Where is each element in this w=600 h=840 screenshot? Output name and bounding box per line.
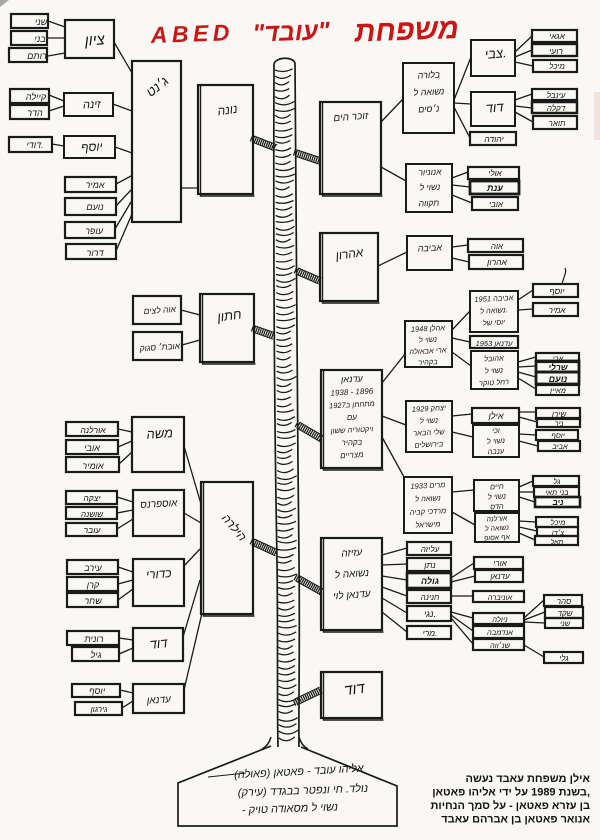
box vicki [473, 425, 519, 457]
box david-bot [321, 672, 384, 720]
box c-nir [537, 418, 580, 427]
wire shnava-gali [524, 645, 544, 657]
wire ehuba-ari [518, 357, 536, 362]
box girgon [75, 702, 122, 715]
svg-text:דקלה: דקלה [547, 104, 566, 113]
wire ilan-nir [519, 417, 537, 422]
svg-text:תקווה: תקווה [418, 198, 439, 209]
svg-text:מרי.: מרי. [423, 628, 438, 638]
svg-text:נ׳סים: נ׳סים [418, 103, 440, 114]
wire anon-anat [452, 185, 470, 187]
box m-aliza [407, 542, 451, 555]
svg-text:יוסף: יוסף [89, 686, 106, 696]
wire kaduri-hillela [184, 549, 200, 566]
svg-text:אנואר פאטאן בן אברהם עאבד: אנואר פאטאן בן אברהם עאבד [441, 814, 590, 826]
svg-text:נשוי ל: נשוי ל [485, 366, 504, 376]
box c-noam2 [536, 372, 579, 384]
box avi1 [66, 440, 118, 454]
wire orlana-moshe [118, 429, 132, 432]
svg-text:עם: עם [347, 413, 358, 423]
svg-text:נשואה ל: נשואה ל [413, 86, 445, 98]
svg-text:מיכל: מיכל [551, 518, 566, 527]
svg-text:עזיזה: עזיזה [341, 547, 363, 559]
wire chaim-gal [519, 481, 533, 487]
wire aharon-aviva [378, 252, 407, 266]
svg-text:יוסף: יוסף [549, 286, 565, 296]
wire miriam-chaim [452, 490, 474, 492]
wire gola-ori [451, 563, 474, 578]
svg-text:בירושלים: בירושלים [414, 439, 443, 449]
svg-text:שנ׳ווה: שנ׳ווה [490, 641, 510, 650]
wire adnanbig-1948 [382, 354, 405, 383]
wire nina-ganet [113, 104, 132, 111]
wire aziza-meri [382, 612, 407, 632]
wire beni-tsion [47, 37, 65, 39]
svg-text:ABED: ABED [149, 19, 234, 48]
box yehuda [470, 132, 516, 145]
svg-text:מאיין: מאיין [549, 386, 566, 395]
wire aziza-negi [382, 598, 407, 613]
wire chaim-niv [519, 497, 535, 502]
svg-text:אוניברה: אוניברה [488, 593, 513, 602]
wire itzhak-vicki [452, 432, 473, 437]
svg-text:רונית: רונית [83, 634, 103, 644]
svg-text:אהרון: אהרון [486, 257, 507, 267]
svg-text:אף אסופ: אף אסופ [484, 534, 511, 542]
wire ilan-shiran [519, 411, 536, 413]
wire ganet-nona [181, 187, 198, 189]
svg-text:נשואה ל: נשואה ל [334, 567, 369, 581]
svg-text:אהלן 1948: אהלן 1948 [411, 323, 446, 334]
wire niola-shani [524, 622, 545, 623]
svg-text:אילן משפחת עאבד נעשה: אילן משפחת עאבד נעשה [466, 772, 591, 785]
svg-text:עופר: עופר [85, 226, 104, 236]
wire orlana-tsado [519, 527, 537, 531]
wire avi-moshe [118, 441, 132, 447]
svg-text:אביבה: אביבה [417, 242, 442, 253]
svg-text:נשואה ל: נשואה ל [415, 493, 441, 503]
wire keren-kaduri [118, 580, 133, 584]
box chatun [200, 294, 256, 364]
branch hillela-trunk [250, 538, 278, 556]
wire yosef-ganet [115, 147, 132, 153]
svg-text:בקהיר: בקהיר [341, 437, 362, 447]
svg-text:אנוניור: אנוניור [418, 167, 442, 178]
svg-text:נשואה ל: נשואה ל [485, 524, 510, 533]
wire b1948-adnan53 [452, 338, 470, 342]
svg-text:תאל: תאל [551, 538, 564, 546]
svg-text:עדנאן: עדנאן [145, 694, 171, 707]
box miriam [404, 477, 452, 533]
wire tsvi-c1 [515, 36, 532, 52]
svg-text:אגאי: אגאי [549, 32, 565, 41]
box irav [67, 560, 118, 574]
branch trunk-aharon [294, 267, 321, 284]
box m-meri [407, 626, 451, 639]
wire shani-tsion [48, 21, 65, 27]
svg-text:דודי.: דודי. [26, 140, 43, 150]
box aviva51 [470, 291, 518, 332]
branch trunk-zocher [294, 149, 322, 164]
svg-text:יצחק 1929: יצחק 1929 [412, 403, 447, 414]
box noam1 [65, 198, 116, 215]
box c-tsado [537, 527, 578, 536]
box hadar [10, 105, 49, 119]
svg-text:נועם: נועם [549, 374, 568, 384]
svg-text:בשנת 1989 על ידי אליהו פאטאן,: בשנת 1989 על ידי אליהו פאטאן, [432, 786, 590, 799]
box aziza [321, 538, 384, 632]
box itzhak [406, 401, 452, 452]
branch trunk-adnan [295, 421, 324, 441]
svg-text:ניולה: ניולה [492, 615, 507, 624]
svg-text:עליזה: עליזה [421, 545, 440, 554]
wire chaim-bnitai [519, 491, 534, 493]
box c-agai [532, 30, 577, 42]
box anon [406, 164, 452, 212]
box esperans [133, 490, 184, 536]
box ehuba [471, 351, 518, 389]
svg-text:סהר: סהר [557, 597, 572, 606]
wire zocher-blora [381, 99, 403, 122]
box r-andamba [473, 626, 524, 638]
wire rotem-tsion [48, 53, 65, 56]
box beni [11, 31, 47, 45]
box orlana2 [475, 513, 519, 542]
wire zocher-anon [381, 167, 406, 181]
box r-adnan [475, 570, 523, 582]
box b1948 [405, 321, 452, 367]
box r-onibra [473, 591, 524, 602]
svg-text:גירגון: גירגון [90, 705, 108, 714]
box c-ava [468, 239, 523, 252]
wire tsvi-c3 [515, 62, 533, 66]
svg-text:דוד: דוד [485, 99, 505, 116]
svg-text:"עובד": "עובד" [252, 17, 331, 48]
box c-yosef4 [536, 430, 578, 440]
box shachar [67, 593, 118, 607]
wire moshe-hillela [184, 446, 201, 504]
wire davidr-c4 [515, 94, 532, 100]
box c-tomer [533, 116, 577, 129]
trunk base flare [262, 737, 308, 749]
svg-text:בקהיר: בקהיר [418, 357, 438, 367]
svg-text:עדנאן: עדנאן [340, 373, 364, 384]
typed credits [431, 772, 591, 826]
box david-r [471, 92, 515, 126]
box c-michal2 [536, 517, 578, 527]
box m-hanina [407, 590, 451, 603]
box dudi [9, 137, 52, 152]
wire blora-davidr [454, 103, 471, 104]
svg-text:הדר: הדר [27, 108, 43, 118]
box c-sharli [536, 361, 579, 372]
branch nona-trunk [250, 135, 277, 151]
box shoshana [66, 507, 117, 519]
branch trunk-aziza [294, 574, 324, 594]
svg-text:נשוי ל: נשוי ל [488, 492, 507, 502]
svg-text:יוסף: יוסף [551, 431, 564, 440]
box ava-lezim [133, 296, 181, 324]
wire yosef2-adnanl [120, 690, 133, 693]
box adnan-l [133, 684, 184, 713]
wire negi-shnava [451, 618, 473, 644]
svg-text:נונה: נונה [217, 102, 239, 119]
svg-text:גיל: גיל [91, 650, 102, 660]
wire aziza-natan [382, 564, 407, 565]
pedestal base [178, 746, 397, 826]
box c-anat [470, 181, 519, 194]
box c-tal [535, 536, 578, 545]
box zocher [320, 102, 383, 196]
box amir1 [65, 177, 116, 192]
svg-text:מרדכי קביה: מרדכי קביה [409, 506, 446, 517]
corner mark [0, 0, 9, 7]
box c-oli [468, 167, 519, 179]
svg-text:שלי הבאר: שלי הבאר [413, 427, 445, 438]
box over [66, 523, 117, 536]
box keren [67, 577, 118, 591]
box c-inbal [532, 89, 577, 100]
svg-text:אמיר: אמיר [549, 306, 567, 315]
svg-text:דוד: דוד [343, 680, 366, 700]
wire shoshana-esper [117, 510, 133, 513]
wire irav-kaduri [118, 567, 133, 572]
svg-text:נועם: נועם [86, 202, 104, 212]
wire girgon-adnanl [122, 701, 133, 708]
wire b1948-aviva51 [452, 311, 470, 330]
box c-main [536, 385, 579, 395]
box chaim [474, 480, 519, 511]
box hillela [201, 482, 255, 616]
svg-text:יוסף: יוסף [81, 139, 103, 154]
box ganet [132, 61, 181, 222]
svg-text:הדס: הדס [490, 502, 504, 512]
svg-text:זינה: זינה [83, 99, 102, 112]
wire tsion-ganet [114, 42, 132, 73]
wire avatsgok-chatun [182, 340, 200, 345]
svg-text:נשוי ל: נשוי ל [420, 416, 439, 426]
box yosef1 [64, 136, 115, 158]
box m-natan [407, 558, 451, 571]
svg-text:קרן: קרן [86, 580, 100, 590]
box nona [198, 85, 255, 196]
svg-text:אובי: אובי [84, 443, 100, 453]
box c-bnitai [534, 487, 579, 497]
svg-text:נשוי ל: נשוי ל [419, 182, 440, 193]
svg-text:משפחת: משפחת [353, 13, 459, 49]
svg-text:אובי: אובי [489, 200, 504, 209]
box adnan-big [321, 370, 384, 470]
box ronit [67, 631, 119, 645]
svg-text:ציון: ציון [83, 31, 106, 49]
box c-niv [535, 497, 580, 507]
wire omir-moshe [119, 452, 132, 464]
box keila [10, 89, 49, 103]
svg-text:נשוי ל: נשוי ל [487, 436, 506, 446]
box f-sahar [544, 595, 582, 606]
wire aviva51-yosef [518, 290, 533, 300]
svg-text:יצקה: יצקה [83, 493, 101, 503]
wire aviva-ava [452, 245, 468, 247]
box c-shiran [536, 408, 580, 419]
svg-text:ענבה: ענבה [487, 446, 505, 456]
box c-aharon [469, 255, 523, 269]
box c-michal1 [533, 60, 577, 72]
svg-text:משה: משה [146, 425, 174, 442]
svg-text:עובר: עובר [84, 525, 102, 535]
svg-text:אומיר: אומיר [82, 461, 104, 471]
box tsion [65, 20, 114, 58]
wire blora-tsvi [454, 57, 471, 100]
svg-text:חיים: חיים [490, 482, 504, 492]
wire davidr-c5 [515, 106, 532, 108]
wire itzka-esper [117, 497, 133, 502]
svg-text:יוסי של: יוסי של [483, 317, 506, 327]
flourish lamed [562, 268, 566, 284]
box orlana1 [66, 422, 118, 436]
svg-text:אוספרנס: אוספרנס [140, 498, 178, 511]
wire dudi-yosef [52, 144, 64, 146]
box r-ori [474, 557, 523, 569]
svg-text:צבי.: צבי. [484, 45, 507, 62]
wire avalezim-chatun [181, 310, 200, 315]
box david-l [133, 628, 183, 661]
svg-text:מרים 1933: מרים 1933 [410, 480, 445, 491]
svg-text:אולי: אולי [488, 169, 502, 178]
wire ehuba-main [518, 378, 536, 389]
box itzka [66, 491, 117, 504]
wire aziza-hanina [382, 587, 407, 596]
wire aviva-aharon [452, 258, 469, 262]
wire negi-andamba [451, 615, 473, 631]
box omir [66, 457, 119, 472]
wire negi-niola [451, 612, 473, 618]
wire over-esper [117, 519, 133, 529]
svg-text:אנדמבה: אנדמבה [487, 628, 513, 637]
box f-shaked [545, 607, 583, 618]
box c-aviv [538, 441, 580, 451]
wire amir-ganet [116, 176, 131, 184]
wire adnanl-hillela [184, 613, 202, 690]
svg-text:שני: שני [560, 619, 571, 628]
svg-text:ענת: ענת [486, 183, 503, 193]
wire ehuba-noam [518, 372, 536, 377]
box c-yosef3 [533, 284, 578, 297]
box m-gola [407, 573, 451, 588]
svg-text:עדנאן: עדנאן [489, 572, 510, 581]
box kaduri [133, 559, 184, 606]
wire vicki-aviv [519, 441, 538, 446]
svg-text:אהובל: אהובל [484, 353, 504, 363]
wire niola-shaked [524, 612, 545, 620]
svg-text:נגי.: נגי. [424, 609, 436, 619]
svg-text:ניר: ניר [555, 419, 564, 428]
wire miriam-orlana [452, 512, 475, 525]
svg-text:תואר: תואר [549, 119, 566, 128]
box c-gal [533, 476, 579, 486]
svg-text:עינבל: עינבל [547, 91, 566, 100]
box moshe [132, 417, 184, 472]
svg-text:ניב: ניב [552, 498, 564, 507]
svg-text:רועי: רועי [549, 46, 563, 56]
svg-text:אילן: אילן [487, 411, 503, 421]
svg-text:נתן: נתן [423, 560, 435, 570]
box blora [403, 63, 454, 133]
svg-text:כדורי: כדורי [145, 566, 172, 582]
wire adnanbig-itzhak [382, 416, 406, 425]
box shani [11, 14, 48, 28]
box c-amir2 [533, 303, 578, 316]
box f-shani [545, 618, 583, 628]
wire hanina-onibra [451, 595, 473, 597]
wire itzhak-ilan [452, 414, 472, 416]
box aharon-b [320, 233, 380, 303]
box r-shnava [473, 639, 524, 650]
svg-text:שני: שני [35, 17, 48, 27]
wire anon-oli [452, 172, 468, 178]
svg-text:עדנאן 1953: עדנאן 1953 [476, 339, 514, 348]
wire keila-nina [49, 95, 64, 101]
svg-text:אורלנה: אורלנה [80, 425, 106, 435]
wire esper-hillela [184, 513, 201, 523]
wire niola-sahar [524, 600, 544, 618]
svg-text:יהודה: יהודה [484, 134, 504, 144]
wire aziza-gola [382, 576, 407, 580]
wire hadar-nina [49, 106, 64, 111]
wire shachar-kaduri [118, 589, 133, 600]
box c-ari [536, 353, 579, 362]
box aviva [407, 236, 452, 270]
box ofer1 [65, 222, 115, 238]
svg-text:אורלנה: אורלנה [486, 514, 508, 523]
underline פאולה [208, 773, 246, 777]
svg-text:חנינה: חנינה [421, 593, 440, 602]
branch trunk-david [293, 687, 322, 706]
scan smear red [594, 92, 600, 140]
svg-text:בלורה: בלורה [417, 69, 440, 80]
svg-text:עירב: עירב [83, 563, 102, 573]
svg-text:בני תאי: בני תאי [545, 488, 568, 497]
svg-text:בן עזרא פאטאן - על סמך הנחיות: בן עזרא פאטאן - על סמך הנחיות [431, 799, 590, 812]
svg-text:גל: גל [554, 477, 561, 486]
wire vicki-yosef [519, 434, 536, 435]
box c-dikla [532, 102, 577, 113]
branch chatun-trunk [251, 325, 275, 339]
wire noam-ganet [116, 190, 131, 206]
box dror [66, 244, 116, 259]
svg-text:דוד: דוד [149, 635, 169, 652]
svg-text:גלי: גלי [559, 654, 569, 663]
svg-text:נשואה ל.: נשואה ל. [480, 305, 508, 315]
svg-text:מישראל: מישראל [415, 519, 441, 529]
wire davidl-hillela [183, 580, 200, 637]
box ilan [472, 408, 519, 423]
svg-text:קיילה: קיילה [26, 92, 47, 102]
svg-text:שושנה: שושנה [81, 510, 104, 519]
box rotem [9, 48, 47, 62]
box c-roi [532, 44, 577, 56]
svg-text:רותם: רותם [27, 51, 47, 61]
tree trunk [274, 58, 300, 747]
box gil [72, 647, 119, 661]
box m-negi [407, 606, 451, 621]
wire ofer-ganet [115, 202, 131, 229]
wire aviva51-amir [518, 309, 533, 310]
svg-text:אוה: אוה [491, 242, 504, 251]
wire davidr-c6 [515, 112, 533, 122]
svg-text:גולה: גולה [421, 576, 439, 586]
wire b1948-ehuba [452, 352, 471, 366]
